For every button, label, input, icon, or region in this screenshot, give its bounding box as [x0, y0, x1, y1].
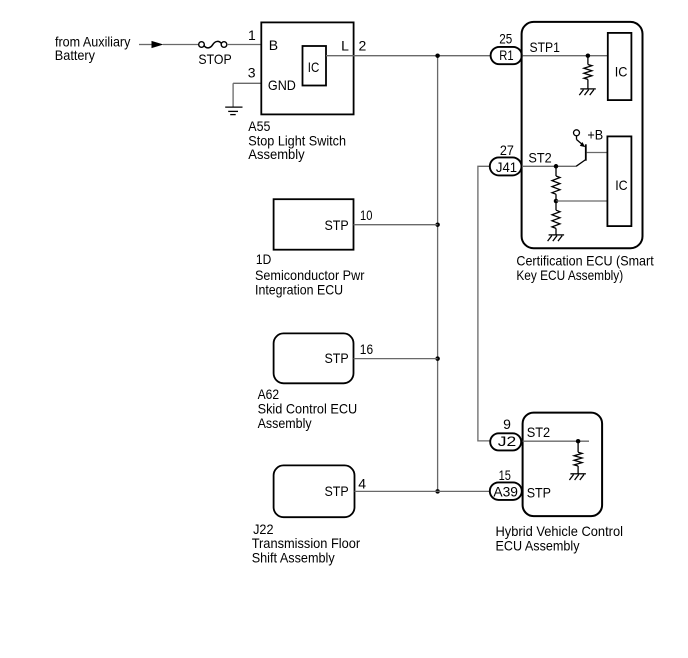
skid control ECU box A62 — [274, 333, 354, 383]
connector oval R1 — [491, 47, 522, 64]
chassis ground hybrid — [569, 474, 586, 480]
svg-text:+B: +B — [587, 127, 603, 143]
wire IC to pin L — [326, 55, 354, 57]
wire 1D STP to bus — [354, 224, 438, 226]
wire STP1 to IC — [523, 55, 608, 57]
IC box cert top — [608, 33, 632, 100]
1D caption — [255, 251, 365, 297]
svg-text:2: 2 — [359, 38, 367, 54]
wire fuse to pin 1 — [227, 44, 261, 46]
resistor R-st2-upper — [552, 166, 560, 201]
connector oval J2 — [490, 433, 521, 450]
svg-text:Hybrid Vehicle Control: Hybrid Vehicle Control — [496, 523, 624, 539]
svg-text:L: L — [341, 38, 349, 54]
junction mid divider — [554, 199, 559, 204]
svg-text:STP: STP — [325, 217, 349, 233]
wire ground to pin 3 — [233, 82, 261, 84]
svg-text:3: 3 — [248, 64, 256, 80]
node from-Auxiliary-Battery label — [55, 33, 131, 63]
svg-text:Assembly: Assembly — [248, 146, 304, 162]
resistor R-stp1 — [584, 56, 592, 89]
junction ST2 hybrid — [576, 439, 581, 444]
svg-text:STP: STP — [325, 483, 349, 499]
svg-text:IC: IC — [615, 64, 628, 80]
ic U1 inside A55 — [303, 46, 327, 86]
semiconductor pwr integration ECU box 1D — [274, 199, 354, 250]
stop light switch box A55 — [261, 22, 353, 114]
svg-text:R1: R1 — [499, 47, 513, 63]
wire ST2 cert — [522, 165, 576, 167]
svg-text:ECU Assembly: ECU Assembly — [496, 538, 580, 554]
wire base to IC — [587, 152, 608, 154]
junction bus 1D — [435, 222, 440, 227]
wire divider to IC — [556, 200, 607, 202]
bus vertical wire — [437, 56, 439, 492]
svg-text:J41: J41 — [496, 159, 517, 175]
svg-text:STOP: STOP — [198, 51, 231, 67]
svg-text:15: 15 — [499, 467, 511, 483]
junction bus top — [435, 53, 440, 58]
svg-text:27: 27 — [500, 142, 514, 158]
svg-text:4: 4 — [358, 475, 366, 491]
resistor R-st2-lower — [552, 201, 560, 235]
hybrid vehicle control ECU box — [523, 413, 603, 516]
connector oval J41 — [490, 157, 522, 175]
chassis ground cert bottom — [548, 235, 565, 241]
A55 caption — [248, 118, 346, 162]
certification caption — [516, 253, 653, 283]
svg-text:IC: IC — [615, 177, 627, 193]
certification ECU box — [522, 22, 643, 248]
A62 caption — [258, 386, 358, 431]
chassis ground cert top — [579, 89, 596, 95]
connector oval A39 — [490, 482, 522, 500]
wire J22 STP to A39 — [355, 490, 490, 492]
IC box cert bottom — [607, 136, 631, 226]
svg-text:GND: GND — [268, 77, 296, 93]
svg-text:16: 16 — [360, 341, 373, 357]
svg-text:1D: 1D — [256, 251, 271, 267]
svg-text:ST2: ST2 — [527, 424, 551, 440]
svg-text:Integration ECU: Integration ECU — [255, 281, 343, 297]
wire L/2 from A55 to R1 — [354, 55, 490, 57]
arrow into stop fuse — [152, 41, 164, 48]
svg-text:Assembly: Assembly — [258, 415, 312, 431]
svg-text:Shift Assembly: Shift Assembly — [252, 550, 335, 566]
svg-text:J2: J2 — [498, 433, 517, 449]
svg-text:ST2: ST2 — [528, 150, 551, 166]
svg-text:25: 25 — [499, 30, 512, 46]
svg-text:STP: STP — [527, 485, 551, 501]
svg-text:A62: A62 — [258, 386, 280, 402]
svg-text:B: B — [269, 37, 278, 53]
transistor Q1 — [574, 130, 586, 167]
junction bus J22 — [435, 489, 440, 494]
wire J41 to J2 — [478, 166, 491, 441]
resistor R-st2-hybrid — [574, 441, 582, 473]
J22 caption — [252, 521, 361, 566]
junction STP1 — [586, 53, 591, 58]
wire from battery to arrow — [139, 44, 152, 46]
wire arrow to fuse — [163, 44, 199, 46]
fuse STOP — [199, 41, 227, 48]
wire ST2 hybrid — [523, 440, 589, 442]
svg-text:Battery: Battery — [55, 47, 95, 63]
junction bus A62 — [435, 356, 440, 361]
svg-text:STP: STP — [325, 350, 349, 366]
junction ST2 cert — [554, 164, 559, 169]
svg-text:1: 1 — [248, 27, 256, 43]
ground (earth) at A55 pin 3 — [225, 83, 242, 114]
hybrid caption — [496, 523, 624, 554]
svg-text:10: 10 — [360, 207, 373, 223]
svg-text:IC: IC — [308, 59, 320, 75]
svg-text:Key ECU Assembly): Key ECU Assembly) — [516, 267, 623, 283]
svg-text:STP1: STP1 — [530, 39, 561, 55]
wire A62 STP to bus — [354, 358, 438, 360]
svg-text:9: 9 — [503, 416, 511, 432]
transmission floor shift box J22 — [274, 465, 355, 517]
svg-text:A39: A39 — [493, 484, 518, 500]
